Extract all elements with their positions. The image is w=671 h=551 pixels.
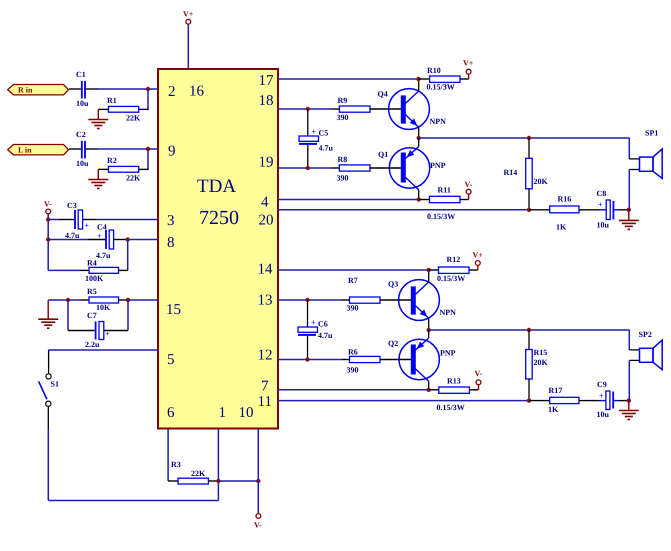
svg-text:C8: C8 [597, 189, 607, 198]
wire C8 to ground node [613, 209, 628, 211]
wire ground to R5 row [48, 299, 81, 301]
svg-text:SP1: SP1 [645, 129, 658, 138]
svg-text:22K: 22K [126, 174, 141, 183]
junction node pin10 [256, 479, 260, 483]
wire pin17 [278, 78, 418, 80]
wire SP1 top feed [629, 138, 639, 159]
U1 pin 4 label [261, 195, 269, 211]
svg-text:1K: 1K [548, 405, 559, 414]
svg-text:7: 7 [261, 379, 269, 395]
wire switch to bottom rail [48, 406, 218, 500]
wire pin18 to R9 [331, 108, 339, 110]
svg-text:V-: V- [44, 200, 52, 209]
resistor R12 [437, 255, 469, 283]
svg-text:R6: R6 [348, 348, 358, 357]
svg-text:12: 12 [258, 348, 273, 364]
svg-text:R11: R11 [438, 186, 451, 195]
svg-text:390: 390 [347, 366, 359, 375]
svg-text:V-: V- [475, 369, 483, 378]
wire pin19 to R8 [331, 167, 339, 169]
wire pin6 to R3 [168, 480, 178, 482]
wire C5 top lead [307, 109, 309, 136]
connector R-in [8, 85, 69, 95]
resistor R5 [87, 287, 119, 312]
wire R14 top lead [528, 138, 530, 158]
capacitor C3 [65, 201, 90, 240]
svg-text:1: 1 [219, 405, 227, 421]
svg-text:11: 11 [258, 394, 272, 410]
svg-text:R5: R5 [87, 287, 97, 296]
power V+ at R12 [473, 251, 484, 266]
svg-text:+: + [312, 127, 317, 136]
svg-text:16: 16 [189, 84, 205, 100]
svg-text:V+: V+ [463, 59, 474, 68]
svg-text:+: + [598, 200, 603, 209]
wire R15 bottom lead [528, 379, 530, 401]
svg-text:Q4: Q4 [378, 90, 388, 99]
svg-text:20: 20 [259, 213, 274, 229]
svg-text:19: 19 [259, 155, 274, 171]
svg-text:390: 390 [337, 113, 349, 122]
junction node C6 bottom [305, 357, 309, 361]
svg-text:PNP: PNP [440, 349, 456, 358]
svg-text:S1: S1 [51, 380, 59, 389]
connector L-in [8, 145, 69, 155]
resistor R17 [548, 386, 579, 414]
junction node R15 top [527, 328, 531, 332]
U1 pin 19 label [259, 155, 274, 171]
svg-text:C3: C3 [67, 201, 77, 210]
wire R9 to Q4 base [370, 108, 401, 110]
wire C4 to pin8 [114, 239, 158, 241]
svg-text:10: 10 [239, 405, 254, 421]
svg-text:R8: R8 [338, 155, 348, 164]
junction node pin8 [126, 237, 130, 241]
wire V- to C4 [48, 239, 105, 241]
svg-text:20K: 20K [534, 358, 549, 367]
resistor R2 [107, 156, 141, 183]
svg-text:C5: C5 [319, 129, 329, 138]
svg-text:V+: V+ [183, 10, 194, 19]
transistor Q3 NPN [388, 280, 456, 321]
U1 pin 8 label [167, 235, 175, 251]
svg-text:R10: R10 [427, 66, 441, 75]
wire V- bus to R4 [48, 269, 89, 271]
wire pin14 [278, 269, 429, 271]
svg-text:R14: R14 [504, 168, 518, 177]
U1 pin 7 label [261, 379, 269, 395]
svg-text:C9: C9 [597, 380, 607, 389]
U1 pin 14 label [258, 262, 274, 278]
U1 pin 9 label [168, 144, 176, 160]
svg-text:V-: V- [465, 180, 473, 189]
wire R16 to C8 [579, 209, 606, 211]
capacitor C6 [298, 318, 333, 340]
wire pin12 [278, 359, 341, 361]
junction node pin4/R11 [417, 197, 421, 201]
wire pin10 down to V- [257, 429, 259, 514]
svg-text:+: + [311, 318, 316, 327]
wire R10 to V+ [460, 74, 469, 79]
svg-text:4.7u: 4.7u [96, 251, 111, 260]
wire pin11 [278, 400, 529, 402]
resistor R4 [85, 258, 119, 283]
wire to R17 [529, 400, 550, 402]
U1 pin 13 label [258, 293, 273, 309]
junction node C8/SP1/ground [627, 208, 631, 212]
wire SP2 bottom return [629, 360, 639, 400]
junction node R14 top [527, 136, 531, 140]
power V- left [44, 200, 52, 214]
speaker SP2 [639, 330, 663, 370]
U1 pin 18 label [259, 93, 274, 109]
wire pin7 [278, 389, 429, 391]
svg-text:14: 14 [258, 262, 274, 278]
svg-text:R17: R17 [549, 386, 563, 395]
U1 pin 15 label [166, 302, 181, 318]
svg-text:L in: L in [18, 145, 32, 154]
wire pin13 [278, 299, 341, 301]
junction node C4 row [46, 237, 50, 241]
wire C1 to pin2 [86, 88, 158, 90]
svg-text:R1: R1 [107, 96, 117, 105]
transistor Q2 PNP [388, 339, 456, 381]
ground under R2 [88, 169, 108, 188]
wire pin1 down [217, 429, 219, 481]
U1 pin 12 label [258, 348, 273, 364]
svg-text:4.7u: 4.7u [319, 144, 334, 153]
junction node C5 top [306, 107, 310, 111]
resistor R15 [526, 348, 549, 379]
junction node pin17/R10 [416, 77, 420, 81]
junction node pin9 [146, 147, 150, 151]
wire V- to C3 [48, 219, 74, 221]
svg-text:2.2u: 2.2u [85, 340, 100, 349]
U1 pin 5 label [167, 352, 175, 368]
U1 pin 6 label [167, 405, 175, 421]
wire to R13 [429, 389, 439, 391]
junction node pin11/R17 [527, 398, 531, 402]
wire junction to R2 [139, 149, 149, 169]
svg-text:Q3: Q3 [388, 280, 398, 289]
transistor Q4 NPN [378, 89, 447, 130]
wire to R10 [418, 78, 429, 80]
wire R17 to C9 [579, 400, 606, 402]
U1 pin 16 label [189, 84, 205, 100]
U1 pin 10 label [239, 405, 254, 421]
svg-text:R2: R2 [107, 156, 117, 165]
junction node C5 bottom [306, 166, 310, 170]
svg-text:C4: C4 [97, 223, 107, 232]
svg-text:C7: C7 [87, 311, 97, 320]
wire to R11 [419, 199, 430, 201]
IC U1 TDA7250 [158, 69, 278, 429]
svg-text:10u: 10u [76, 99, 89, 108]
wire C6 bottom lead [307, 336, 309, 360]
wire C3 to pin3 [83, 219, 158, 221]
svg-text:2: 2 [168, 84, 176, 100]
junction node pin1 [216, 479, 220, 483]
wire Q4 collector up [418, 79, 420, 91]
svg-text:+: + [97, 232, 102, 241]
wire pin4 [278, 199, 419, 201]
wire C7 right branch [104, 300, 128, 331]
svg-text:SP2: SP2 [639, 330, 652, 339]
wire pin16 to V+ [187, 24, 189, 69]
resistor R11 [427, 186, 460, 222]
junction node pin7/R13 [427, 388, 431, 392]
wire junction to R1 [139, 89, 149, 109]
svg-text:0.15/3W: 0.15/3W [437, 403, 465, 412]
wire R14 bottom lead [528, 189, 530, 210]
wire R5 to pin15 [119, 299, 159, 301]
svg-text:R3: R3 [171, 460, 181, 469]
ground under C9 [619, 401, 639, 420]
wire R7 to Q3 base [380, 299, 411, 301]
wire C4 junction down to R4 [127, 240, 129, 271]
U1 pin 11 label [258, 394, 272, 410]
wire Q2 emitter [415, 330, 428, 350]
svg-text:15: 15 [166, 302, 181, 318]
svg-text:V+: V+ [473, 251, 484, 260]
wire to R12 [429, 269, 439, 271]
wire Q4 emitter down [418, 127, 420, 138]
capacitor C4 [96, 223, 114, 261]
svg-text:TDA: TDA [197, 176, 236, 197]
speaker SP1 [640, 129, 663, 179]
ground left of R5 [38, 300, 58, 328]
svg-text:22K: 22K [191, 469, 206, 478]
capacitor C9 [597, 380, 614, 419]
transistor Q1 PNP [378, 148, 446, 190]
svg-text:C6: C6 [318, 320, 328, 329]
wire pin5 down to switch [48, 350, 50, 374]
wire output2 rail [429, 329, 630, 331]
power V- at R13 [475, 369, 483, 385]
junction node output1 [417, 136, 421, 140]
junction node C9/SP2/ground [627, 398, 631, 402]
svg-text:R9: R9 [338, 96, 348, 105]
capacitor C7 [85, 311, 110, 349]
svg-text:4: 4 [261, 195, 269, 211]
power V+ at R10 [463, 59, 474, 75]
svg-text:PNP: PNP [430, 161, 446, 170]
wire Q3 collector up [428, 270, 430, 282]
wire pin20 [278, 209, 529, 211]
wire R5 left lead [81, 299, 89, 301]
junction node pin2 [146, 87, 150, 91]
wire R6 to Q2 base [380, 359, 411, 361]
wire pin19 [278, 167, 331, 169]
power V+ top (pin16) [183, 10, 194, 25]
svg-text:0.15/3W: 0.15/3W [427, 83, 455, 92]
svg-text:+: + [599, 391, 604, 400]
svg-text:NPN: NPN [430, 117, 447, 126]
svg-text:8: 8 [167, 235, 175, 251]
wire Q2 collector down [428, 381, 430, 390]
svg-text:3: 3 [167, 213, 175, 229]
svg-text:10K: 10K [96, 303, 111, 312]
svg-text:1K: 1K [556, 223, 567, 232]
wire R-in to C1 [69, 88, 81, 90]
resistor R14 [504, 158, 549, 189]
svg-text:C1: C1 [76, 70, 86, 79]
svg-text:10u: 10u [597, 410, 610, 419]
junction node pin14/R12 [427, 268, 431, 272]
junction node R5 right [126, 298, 130, 302]
junction node C3 row [46, 217, 50, 221]
svg-text:390: 390 [347, 304, 359, 313]
wire R11 to V- [460, 194, 469, 199]
svg-text:5: 5 [167, 352, 175, 368]
capacitor C8 [597, 189, 614, 230]
wire R15 top lead [528, 330, 530, 350]
wire Q1 collector down [418, 190, 420, 200]
wire C2 to pin9 [86, 148, 158, 150]
wire C9 to ground node [613, 400, 629, 402]
U1 pin 1 label [219, 405, 227, 421]
power V- at R11 [465, 180, 473, 194]
capacitor C5 [299, 127, 334, 153]
svg-text:R4: R4 [87, 258, 97, 267]
wire C7 left branch [68, 300, 95, 331]
wire SP2 top feed [629, 330, 639, 350]
wire R1 to ground [98, 108, 108, 110]
svg-text:17: 17 [259, 73, 275, 89]
svg-text:9: 9 [168, 144, 176, 160]
svg-text:V-: V- [254, 521, 262, 530]
wire C6 top lead [307, 300, 309, 327]
power V- bottom [254, 514, 262, 530]
svg-text:R12: R12 [447, 255, 461, 264]
wire R3 to pin1 node [208, 480, 218, 482]
wire R13 to V- [469, 385, 478, 390]
svg-text:6: 6 [167, 405, 175, 421]
svg-text:NPN: NPN [440, 308, 457, 317]
wire L-in to C2 [69, 148, 81, 150]
svg-text:R7: R7 [348, 276, 358, 285]
svg-text:22K: 22K [126, 114, 141, 123]
junction node R5 left [66, 298, 70, 302]
svg-text:390: 390 [337, 174, 349, 183]
wire pin5 [49, 349, 158, 351]
wire R8 to Q1 base [370, 167, 401, 169]
svg-text:+: + [85, 221, 90, 230]
U1 pin 3 label [167, 213, 175, 229]
U1 pin 20 label [259, 213, 274, 229]
svg-text:10u: 10u [76, 159, 89, 168]
wire to R16 [529, 209, 550, 211]
ground under C8 [619, 210, 639, 230]
svg-text:0.15/3W: 0.15/3W [427, 212, 455, 221]
wire R2 to ground [98, 168, 108, 170]
wire R4 to junction [119, 269, 128, 271]
svg-text:Q2: Q2 [388, 339, 398, 348]
junction node C6 top [305, 298, 309, 302]
capacitor C1 [76, 70, 89, 108]
wire V- vertical bus [47, 214, 49, 271]
U1 pin 17 label [259, 73, 275, 89]
resistor R6 [347, 348, 381, 375]
wire Q3 emitter down [428, 318, 430, 330]
svg-text:4.7u: 4.7u [318, 331, 333, 340]
wire pin6 down [167, 429, 169, 481]
resistor R9 [337, 96, 371, 122]
svg-text:4.7u: 4.7u [65, 231, 80, 240]
svg-text:10u: 10u [597, 221, 610, 230]
resistor R7 [347, 276, 381, 313]
capacitor C2 [76, 130, 89, 168]
resistor R1 [107, 96, 141, 123]
wire C5 bottom lead [307, 145, 309, 168]
resistor R16 [550, 195, 579, 232]
resistor R3 [171, 460, 208, 484]
junction node output2 [427, 328, 431, 332]
svg-text:R16: R16 [558, 195, 572, 204]
svg-text:R in: R in [18, 85, 33, 94]
resistor R8 [337, 155, 371, 183]
svg-text:R13: R13 [447, 377, 461, 386]
svg-text:7250: 7250 [199, 207, 239, 229]
wire pin18 [278, 108, 331, 110]
wire pin12 to R6 [341, 359, 349, 361]
resistor R10 [427, 66, 461, 92]
svg-text:18: 18 [259, 93, 274, 109]
wire Q1 emitter [405, 138, 418, 159]
svg-text:R15: R15 [534, 348, 548, 357]
wire output1 rail [419, 137, 630, 139]
wire R12 to V+ [469, 265, 478, 270]
wire pin13 to R7 [341, 299, 349, 301]
switch S1 [39, 374, 59, 407]
U1 pin 2 label [168, 84, 176, 100]
svg-text:13: 13 [258, 293, 273, 309]
wire pin1 node to pin10 node [218, 480, 258, 482]
wire SP1 bottom return [629, 170, 639, 210]
svg-text:C2: C2 [76, 130, 86, 139]
svg-text:100K: 100K [85, 274, 104, 283]
resistor R13 [437, 377, 470, 412]
junction node pin20/R16 [527, 208, 531, 212]
svg-text:Q1: Q1 [378, 150, 388, 159]
svg-text:20K: 20K [534, 177, 549, 186]
ground under R1 [88, 109, 108, 128]
svg-text:0.15/3W: 0.15/3W [437, 274, 465, 283]
